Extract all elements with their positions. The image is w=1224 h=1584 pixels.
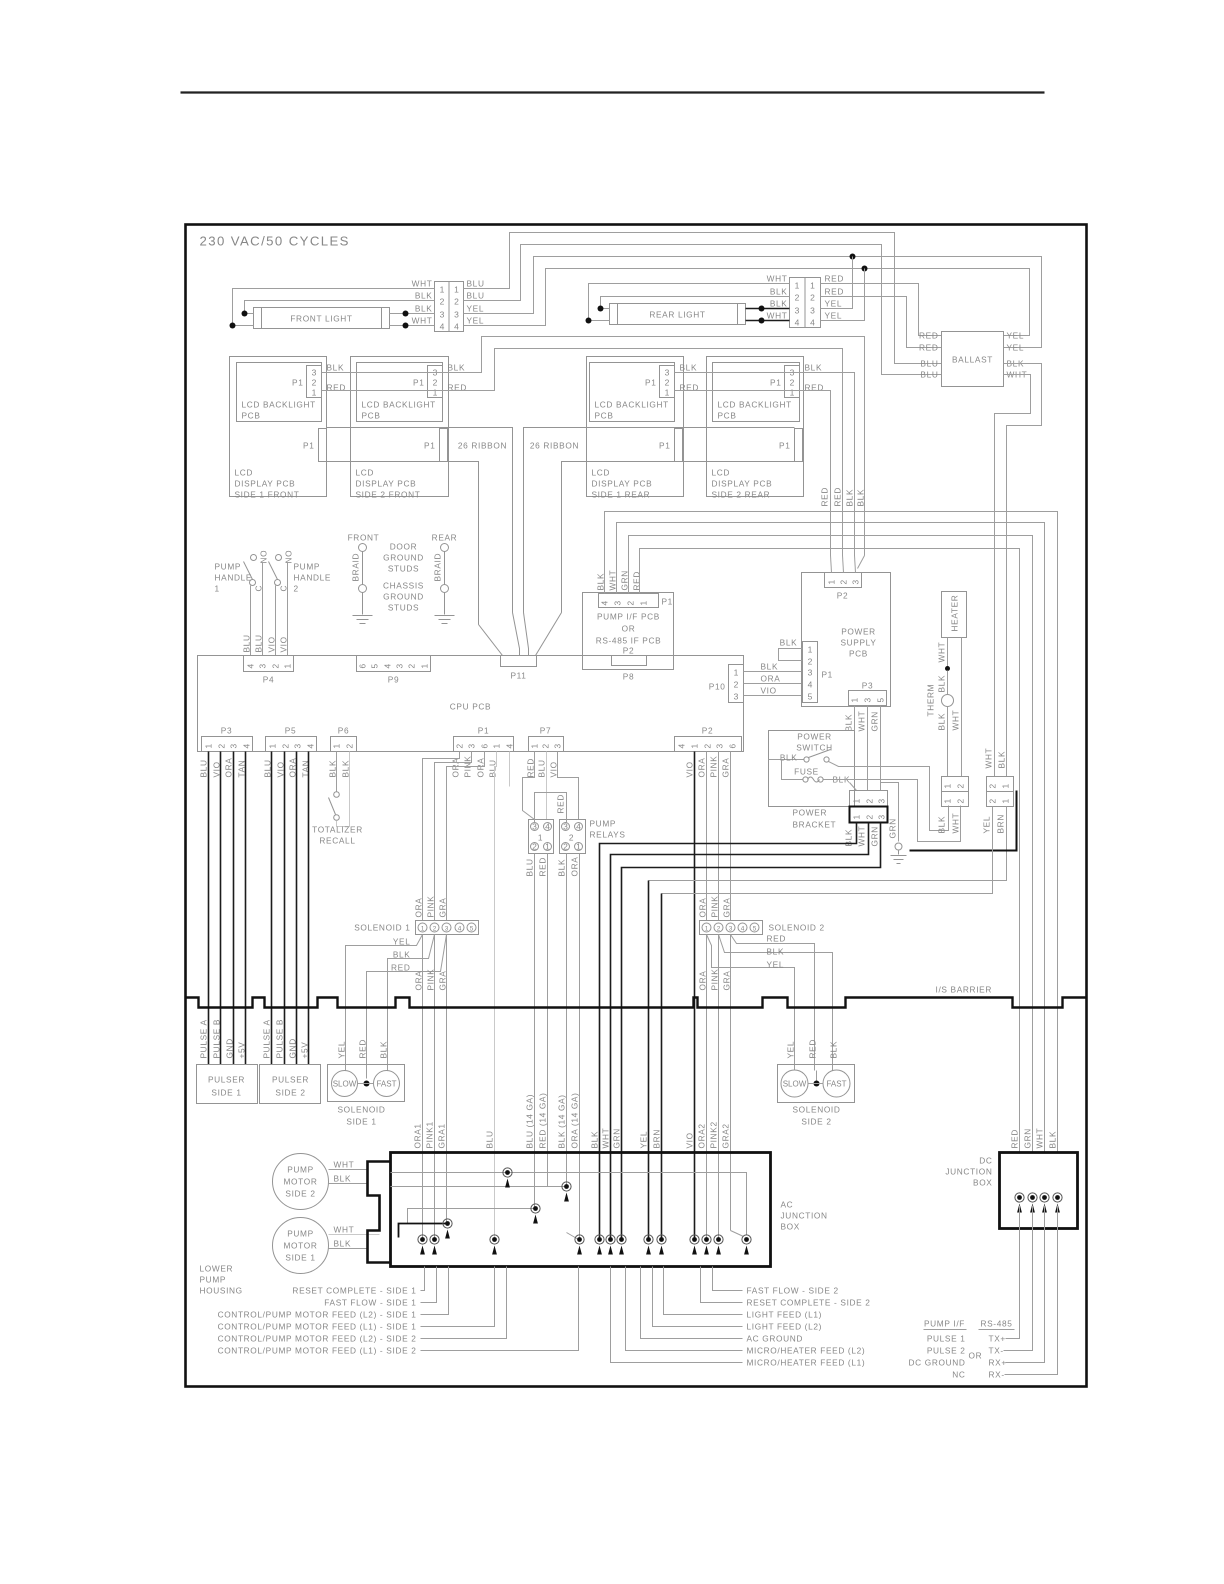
- connector P1 backlight 1: [307, 366, 322, 398]
- svg-text:3: 3: [312, 368, 317, 378]
- svg-text:YEL: YEL: [1007, 331, 1025, 341]
- svg-text:P1: P1: [770, 378, 781, 388]
- svg-text:WHT: WHT: [767, 311, 788, 321]
- svg-text:CONTROL/PUMP MOTOR FEED (L2) -: CONTROL/PUMP MOTOR FEED (L2) - SIDE 1: [218, 1310, 417, 1320]
- svg-text:2: 2: [717, 926, 721, 933]
- svg-text:BLK: BLK: [937, 675, 947, 693]
- svg-text:RS-485: RS-485: [980, 1319, 1012, 1329]
- svg-text:SOLENOID: SOLENOID: [337, 1105, 385, 1115]
- wire BLK rear backlight chain: [675, 373, 855, 556]
- svg-text:3: 3: [734, 692, 739, 702]
- svg-text:P1: P1: [822, 670, 833, 680]
- top rule: [181, 91, 1045, 93]
- svg-text:DC: DC: [979, 1156, 992, 1166]
- wire RED rear 2: [821, 297, 942, 348]
- svg-text:2: 2: [988, 798, 998, 803]
- svg-text:2: 2: [865, 798, 875, 803]
- svg-text:VIO: VIO: [761, 686, 777, 696]
- wire RED rear backlight chain: [675, 391, 831, 556]
- LCD backlight PCB 1: [237, 363, 322, 422]
- svg-text:3: 3: [395, 663, 405, 668]
- svg-text:SIDE 2 REAR: SIDE 2 REAR: [712, 490, 771, 500]
- svg-text:6: 6: [728, 743, 738, 748]
- svg-text:PINK: PINK: [426, 969, 436, 991]
- svg-text:WHT: WHT: [937, 642, 947, 663]
- svg-text:2: 2: [312, 378, 317, 388]
- svg-text:OR: OR: [969, 1351, 983, 1361]
- svg-text:RED: RED: [556, 794, 566, 813]
- svg-text:3: 3: [877, 814, 887, 819]
- svg-text:P1: P1: [779, 441, 790, 451]
- svg-text:P5: P5: [285, 726, 296, 736]
- svg-text:PCB: PCB: [849, 649, 868, 659]
- svg-text:ORA: ORA: [698, 898, 708, 918]
- wire BRN nested to AC: [662, 807, 993, 894]
- svg-text:P3: P3: [221, 726, 232, 736]
- svg-text:BALLAST: BALLAST: [952, 355, 993, 365]
- svg-text:1: 1: [850, 697, 860, 702]
- svg-text:P3: P3: [862, 681, 873, 691]
- svg-text:ORA: ORA: [414, 971, 424, 991]
- wire funnel to P11: [479, 625, 503, 656]
- wire leaders left: [421, 1267, 425, 1291]
- svg-text:BLK: BLK: [379, 1041, 389, 1059]
- ground symbol rear: [435, 615, 455, 617]
- svg-text:BLU: BLU: [199, 759, 209, 777]
- connector P2 cpu: [675, 737, 742, 752]
- svg-text:4: 4: [454, 322, 459, 332]
- wire handle1: [250, 586, 252, 656]
- svg-text:BLK: BLK: [829, 1041, 839, 1059]
- svg-text:RED: RED: [391, 963, 410, 973]
- svg-text:2: 2: [563, 842, 568, 852]
- svg-text:SIDE 1 REAR: SIDE 1 REAR: [592, 490, 651, 500]
- solenoid 2 connector: [700, 921, 763, 935]
- svg-text:2: 2: [956, 798, 966, 803]
- svg-text:WHT: WHT: [984, 748, 994, 769]
- svg-text:GRA: GRA: [438, 898, 448, 918]
- svg-text:POWER: POWER: [797, 732, 832, 742]
- ribbon cable front: [327, 428, 513, 613]
- svg-text:P8: P8: [623, 672, 634, 682]
- svg-text:GRN: GRN: [870, 711, 880, 731]
- svg-text:+5V: +5V: [300, 1042, 310, 1059]
- connector P1 pump I/F: [599, 594, 659, 608]
- svg-text:1: 1: [795, 281, 800, 291]
- svg-text:PINK: PINK: [710, 896, 720, 918]
- svg-text:P2: P2: [702, 726, 713, 736]
- svg-text:4: 4: [810, 318, 815, 328]
- svg-text:DISPLAY PCB: DISPLAY PCB: [592, 479, 653, 489]
- motor bracket: [368, 1162, 391, 1263]
- svg-text:PULSE 2: PULSE 2: [927, 1346, 966, 1356]
- svg-text:POWER: POWER: [793, 808, 828, 818]
- wire RED rear 1: [821, 284, 942, 336]
- svg-text:JUNCTION: JUNCTION: [945, 1167, 992, 1177]
- svg-text:ORA: ORA: [761, 674, 781, 684]
- terminal posts AC and DC junction boxes: [503, 1168, 512, 1188]
- svg-text:AC GROUND: AC GROUND: [747, 1334, 804, 1344]
- connector P6: [331, 737, 357, 752]
- wire AC box internal runs: [391, 1173, 747, 1235]
- ribbon cable rear: [524, 428, 795, 613]
- svg-text:ORA2: ORA2: [697, 1123, 707, 1148]
- svg-text:SIDE 2: SIDE 2: [275, 1088, 305, 1098]
- svg-text:FAST FLOW - SIDE 1: FAST FLOW - SIDE 1: [324, 1298, 416, 1308]
- svg-text:POWER: POWER: [841, 627, 876, 637]
- wire switch to pairA: [829, 762, 949, 831]
- svg-text:1: 1: [268, 743, 278, 748]
- wire sol2 down: [706, 935, 708, 1240]
- svg-text:STUDS: STUDS: [388, 564, 419, 574]
- svg-text:LIGHT FEED (L1): LIGHT FEED (L1): [747, 1310, 823, 1320]
- wire YEL rear 1: [821, 257, 853, 309]
- wire WHT nested to AC: [611, 823, 869, 1240]
- svg-text:LIGHT FEED (L2): LIGHT FEED (L2): [747, 1322, 823, 1332]
- svg-text:TOTALIZER: TOTALIZER: [312, 825, 363, 835]
- connector P1 display 3: [675, 429, 683, 462]
- svg-text:DISPLAY PCB: DISPLAY PCB: [356, 479, 417, 489]
- svg-text:P2: P2: [837, 591, 848, 601]
- wire YEL sol2: [707, 935, 795, 1071]
- svg-text:P1: P1: [659, 441, 670, 451]
- svg-text:BLK: BLK: [845, 489, 855, 507]
- svg-text:DC GROUND: DC GROUND: [908, 1358, 965, 1368]
- rear light connector: [790, 278, 806, 328]
- wire GRA P2 to solenoid2: [730, 752, 732, 921]
- wire YEL nested to AC: [649, 807, 1007, 881]
- svg-text:P1: P1: [413, 378, 424, 388]
- svg-text:DOOR: DOOR: [390, 542, 418, 552]
- svg-text:BLK: BLK: [393, 950, 411, 960]
- svg-text:BLK: BLK: [448, 363, 466, 373]
- svg-text:2: 2: [455, 743, 465, 748]
- svg-text:GRN: GRN: [870, 826, 880, 846]
- svg-text:PUMP: PUMP: [294, 562, 321, 572]
- wire BLK row3 right: [390, 313, 435, 315]
- svg-text:PINK: PINK: [710, 969, 720, 991]
- connector P1 display 4: [795, 429, 803, 462]
- svg-text:ORA (14 GA): ORA (14 GA): [570, 1092, 580, 1148]
- svg-text:P1: P1: [303, 441, 314, 451]
- svg-text:REAR: REAR: [432, 533, 458, 543]
- wire pulser2 wires: [271, 752, 273, 1065]
- svg-text:LCD: LCD: [592, 468, 611, 478]
- connector P1 psu: [803, 642, 818, 703]
- svg-text:3: 3: [532, 822, 537, 832]
- LCD backlight PCB 2: [357, 363, 443, 422]
- svg-text:1: 1: [808, 645, 813, 655]
- svg-text:3: 3: [810, 306, 815, 316]
- svg-text:ORA: ORA: [451, 758, 461, 778]
- svg-text:P4: P4: [263, 675, 274, 685]
- svg-text:MICRO/HEATER FEED (L2): MICRO/HEATER FEED (L2): [747, 1346, 866, 1356]
- wire GRN P3 down: [880, 706, 882, 791]
- svg-text:LCD BACKLIGHT: LCD BACKLIGHT: [362, 400, 436, 410]
- svg-text:YEL: YEL: [639, 1131, 649, 1149]
- svg-text:1: 1: [1001, 783, 1011, 788]
- pump I/F PCB: [583, 593, 674, 670]
- wire BLU P1 to AC box: [495, 752, 497, 1240]
- svg-text:LOWER: LOWER: [200, 1264, 234, 1274]
- svg-text:FRONT: FRONT: [348, 533, 380, 543]
- svg-text:WHT: WHT: [412, 316, 433, 326]
- pulser side 2: [260, 1065, 321, 1104]
- svg-text:1: 1: [332, 743, 342, 748]
- wire WHT motor1: [329, 1234, 380, 1236]
- wire BLK rear right (black): [746, 308, 790, 310]
- svg-text:BLK: BLK: [770, 299, 788, 309]
- svg-text:BLK: BLK: [590, 1131, 600, 1149]
- svg-text:OR: OR: [622, 624, 636, 634]
- svg-text:HEATER: HEATER: [950, 595, 960, 632]
- svg-text:2: 2: [808, 657, 813, 667]
- svg-text:1: 1: [943, 783, 953, 788]
- svg-text:I/S BARRIER: I/S BARRIER: [936, 985, 992, 995]
- wire RED sol2: [731, 935, 815, 1071]
- wire PINK P2 to solenoid2: [718, 752, 720, 921]
- svg-text:1: 1: [440, 285, 445, 295]
- svg-text:26 RIBBON: 26 RIBBON: [530, 441, 579, 451]
- wire WHT rear left loop: [589, 284, 790, 321]
- svg-text:TX-: TX-: [989, 1346, 1004, 1356]
- svg-text:SLOW: SLOW: [783, 1080, 807, 1089]
- svg-text:SLOW: SLOW: [333, 1080, 357, 1089]
- svg-text:6: 6: [358, 663, 368, 668]
- svg-text:YEL: YEL: [467, 304, 485, 314]
- svg-text:BLK: BLK: [805, 363, 823, 373]
- connector pair A: [942, 777, 969, 792]
- svg-text:RX-: RX-: [989, 1370, 1005, 1380]
- connector P9: [357, 656, 431, 672]
- svg-text:1: 1: [215, 584, 220, 594]
- svg-text:LCD: LCD: [235, 468, 254, 478]
- svg-text:BLU (14 GA): BLU (14 GA): [525, 1094, 535, 1149]
- pump motor side 2: [273, 1154, 329, 1210]
- svg-text:PULSER: PULSER: [272, 1075, 309, 1085]
- svg-text:MICRO/HEATER FEED (L1): MICRO/HEATER FEED (L1): [747, 1358, 866, 1368]
- svg-text:WHT: WHT: [857, 826, 867, 847]
- svg-text:WHT: WHT: [334, 1225, 355, 1235]
- svg-text:WHT: WHT: [1035, 1128, 1045, 1149]
- svg-text:GRN: GRN: [1023, 1128, 1033, 1148]
- svg-text:LCD: LCD: [712, 468, 731, 478]
- svg-text:4: 4: [306, 743, 316, 748]
- svg-text:3: 3: [258, 663, 268, 668]
- svg-text:P2: P2: [623, 646, 634, 656]
- svg-text:4: 4: [741, 926, 745, 933]
- pump relay 2: [560, 820, 586, 854]
- svg-text:2: 2: [454, 297, 459, 307]
- svg-text:GND: GND: [288, 1038, 298, 1058]
- fuse: [782, 760, 803, 780]
- svg-text:WHT: WHT: [951, 710, 961, 731]
- svg-text:P9: P9: [388, 675, 399, 685]
- svg-text:GRA: GRA: [722, 898, 732, 918]
- svg-text:PCB: PCB: [718, 411, 737, 421]
- svg-text:2: 2: [281, 743, 291, 748]
- svg-text:P11: P11: [510, 671, 526, 681]
- wire pin4 stub: [509, 752, 511, 787]
- svg-text:BLK: BLK: [767, 947, 785, 957]
- svg-text:BLU: BLU: [537, 759, 547, 777]
- connector P3 psu: [849, 691, 887, 706]
- svg-text:WHT: WHT: [334, 1160, 355, 1170]
- svg-text:FRONT LIGHT: FRONT LIGHT: [290, 314, 352, 324]
- svg-text:BLU: BLU: [254, 634, 264, 652]
- wire heater right lead: [961, 638, 963, 777]
- connector power bracket lower (black): [850, 807, 888, 823]
- svg-text:230 VAC/50 CYCLES: 230 VAC/50 CYCLES: [200, 234, 350, 249]
- svg-text:2: 2: [956, 783, 966, 788]
- wire BLK ballast out: [1004, 364, 1042, 777]
- solenoid side 1: [328, 1065, 405, 1102]
- svg-text:ORA1: ORA1: [413, 1123, 423, 1148]
- svg-text:ORA: ORA: [224, 758, 234, 778]
- svg-text:2: 2: [271, 663, 281, 668]
- svg-text:RED: RED: [358, 1039, 368, 1058]
- svg-text:WHT: WHT: [767, 274, 788, 284]
- svg-text:26 RIBBON: 26 RIBBON: [458, 441, 507, 451]
- svg-text:CONTROL/PUMP MOTOR FEED (L1) -: CONTROL/PUMP MOTOR FEED (L1) - SIDE 1: [218, 1322, 417, 1332]
- wire BLK relay out: [566, 854, 568, 1187]
- svg-text:FAST FLOW - SIDE 2: FAST FLOW - SIDE 2: [747, 1286, 839, 1296]
- wire VIO P7 to relay2: [558, 752, 579, 820]
- svg-text:PULSE B: PULSE B: [212, 1019, 222, 1059]
- rear light tube: [610, 304, 746, 325]
- svg-text:SOLENOID 2: SOLENOID 2: [769, 923, 825, 933]
- svg-text:5: 5: [470, 926, 474, 933]
- connector P1 backlight 4: [785, 366, 800, 398]
- thermistor: [942, 695, 954, 707]
- svg-text:2: 2: [440, 297, 445, 307]
- svg-text:TX+: TX+: [989, 1334, 1006, 1344]
- svg-text:PINK2: PINK2: [709, 1121, 719, 1148]
- wire WHT motor2: [329, 1169, 368, 1171]
- wire YEL sol1: [346, 935, 423, 1071]
- svg-text:3: 3: [553, 743, 563, 748]
- svg-text:1: 1: [420, 663, 430, 668]
- svg-text:YEL: YEL: [393, 937, 411, 947]
- svg-text:BLK: BLK: [937, 816, 947, 834]
- svg-text:BRACKET: BRACKET: [793, 820, 837, 830]
- svg-text:FUSE: FUSE: [794, 767, 819, 777]
- svg-text:1: 1: [665, 388, 670, 398]
- svg-text:4: 4: [242, 743, 252, 748]
- connector P7: [529, 737, 564, 752]
- svg-text:PUMP: PUMP: [215, 562, 242, 572]
- svg-text:BLK: BLK: [415, 291, 433, 301]
- svg-text:1: 1: [204, 743, 214, 748]
- connector P1 backlight 3: [660, 366, 675, 398]
- svg-text:4: 4: [246, 663, 256, 668]
- svg-text:3: 3: [665, 368, 670, 378]
- wire WHT rear right (black): [746, 320, 790, 322]
- svg-text:GND: GND: [225, 1038, 235, 1058]
- svg-text:P1: P1: [645, 378, 656, 388]
- I/S barrier: [186, 985, 1087, 1008]
- svg-text:2: 2: [810, 293, 815, 303]
- svg-text:GRA: GRA: [721, 758, 731, 778]
- svg-text:VIO: VIO: [279, 636, 289, 652]
- wire WHT P3 down: [867, 706, 869, 791]
- svg-text:BLK: BLK: [334, 1239, 352, 1249]
- svg-text:YEL: YEL: [825, 311, 843, 321]
- svg-text:RED: RED: [767, 934, 786, 944]
- svg-text:NO: NO: [259, 550, 269, 564]
- svg-text:BLK: BLK: [770, 287, 788, 297]
- svg-text:4: 4: [795, 318, 800, 328]
- svg-text:2: 2: [569, 833, 574, 843]
- wire VIO P2 to AC (black): [694, 752, 696, 1240]
- svg-text:WHT: WHT: [857, 711, 867, 732]
- svg-text:1: 1: [943, 798, 953, 803]
- pump relay 1: [529, 820, 554, 854]
- connector P2 psu: [825, 573, 862, 588]
- wire BLU P7 to relay1: [546, 752, 548, 820]
- svg-text:3: 3: [715, 743, 725, 748]
- svg-text:GRA2: GRA2: [721, 1123, 731, 1148]
- LCD display PCB side 1 front: [230, 357, 327, 497]
- svg-text:1: 1: [690, 743, 700, 748]
- svg-text:1: 1: [734, 668, 739, 678]
- svg-text:YEL: YEL: [767, 960, 785, 970]
- svg-text:BLU: BLU: [467, 279, 485, 289]
- svg-text:+5V: +5V: [237, 1042, 247, 1059]
- wire handle2: [275, 586, 277, 656]
- svg-text:5: 5: [753, 926, 757, 933]
- svg-text:SIDE 1: SIDE 1: [285, 1253, 315, 1263]
- wire RED P7 to relay1: [523, 752, 535, 820]
- svg-text:BLU: BLU: [485, 1130, 495, 1148]
- svg-text:1: 1: [827, 579, 837, 584]
- svg-text:GRN: GRN: [612, 1128, 622, 1148]
- svg-text:BLK: BLK: [327, 363, 345, 373]
- svg-text:PULSER: PULSER: [208, 1075, 245, 1085]
- svg-text:ORA: ORA: [698, 971, 708, 991]
- svg-text:AC: AC: [781, 1200, 794, 1210]
- svg-text:1: 1: [576, 842, 581, 852]
- ground stud rear: [441, 544, 449, 552]
- wire BLK nested to AC: [600, 823, 857, 1240]
- wire BLU bus 2: [464, 245, 942, 375]
- wire BLK jumper P1: [779, 649, 803, 661]
- wire BLK rear left loop: [601, 297, 790, 309]
- svg-text:P1: P1: [662, 597, 673, 607]
- svg-text:PUMP: PUMP: [287, 1165, 314, 1175]
- svg-text:BLU: BLU: [525, 858, 535, 876]
- svg-text:1: 1: [283, 663, 293, 668]
- connector P3: [202, 737, 253, 752]
- wire BLK sol2: [719, 935, 833, 1071]
- svg-text:RED: RED: [538, 857, 548, 876]
- wire leaders right: [713, 1267, 743, 1291]
- svg-text:4: 4: [808, 680, 813, 690]
- svg-text:WHT: WHT: [951, 813, 961, 834]
- svg-text:1: 1: [492, 743, 502, 748]
- svg-text:BLK: BLK: [680, 363, 698, 373]
- svg-text:JUNCTION: JUNCTION: [781, 1211, 828, 1221]
- wire RED relay out: [547, 854, 549, 1187]
- svg-text:SIDE 2 FRONT: SIDE 2 FRONT: [356, 490, 421, 500]
- svg-text:2: 2: [734, 680, 739, 690]
- svg-text:ORA: ORA: [414, 898, 424, 918]
- wire PINK P1 to solenoid1: [435, 752, 472, 921]
- connector P1 cpu: [454, 737, 514, 752]
- svg-text:ORA: ORA: [697, 758, 707, 778]
- node YEL junction 1: [850, 254, 856, 260]
- svg-text:P1: P1: [424, 441, 435, 451]
